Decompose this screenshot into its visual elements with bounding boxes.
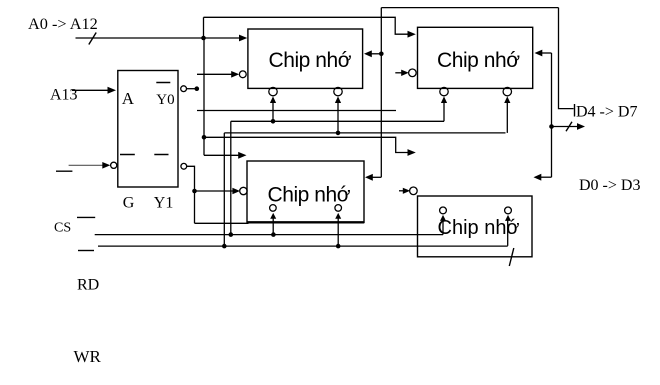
arrowhead chip3 RD bbox=[270, 213, 276, 219]
bubble chip4 RD bbox=[440, 207, 447, 214]
wire chip2 CS bbox=[395, 72, 404, 74]
wire chip3 RD riser bbox=[272, 217, 274, 235]
bubble chip3 RD bbox=[270, 205, 277, 212]
wire Y1 elbow bbox=[187, 166, 195, 223]
wire WR distribution riser bbox=[223, 133, 225, 246]
wire chip3 address bbox=[204, 154, 239, 156]
wire top address line to chip2 bbox=[204, 17, 408, 34]
svg-text:Y1: Y1 bbox=[154, 195, 174, 212]
junction node on A bus bbox=[201, 36, 206, 41]
svg-text:Chip nhớ: Chip nhớ bbox=[437, 49, 520, 72]
wire chip4 select run bbox=[204, 137, 408, 152]
wire address line 2 bbox=[197, 110, 396, 112]
arrowhead D0-D3 bbox=[577, 123, 585, 130]
node D-bus D0-D3 bbox=[549, 124, 554, 129]
node rail RD riser1 bbox=[229, 232, 234, 237]
svg-text:G: G bbox=[123, 195, 135, 212]
wire chip4 select dangling arrow head bubble bbox=[399, 190, 406, 192]
wire chip1 WR arrow bbox=[337, 100, 339, 133]
wire RD distribution horizontal bbox=[231, 120, 444, 122]
bubble chip1 RD bbox=[269, 87, 277, 95]
bubble chip4 CS bbox=[410, 187, 418, 195]
node WR to chip1 bbox=[336, 131, 341, 136]
chip U3 memory box 2 bbox=[418, 27, 533, 88]
arrowhead into chip2 address bbox=[408, 31, 416, 38]
arrowhead A13 into decoder pin A bbox=[108, 87, 117, 94]
node D-bus chip1 bbox=[379, 52, 384, 57]
bubble chip4 WR bbox=[505, 207, 512, 214]
wire chip3 WR riser bbox=[337, 217, 339, 246]
node end of Y0 stub bbox=[195, 86, 200, 91]
arrowhead toward chip4 data bbox=[534, 174, 542, 181]
bubble on decoder G input bbox=[111, 162, 117, 168]
wire Y1 bottom run to chip3 corner bbox=[195, 222, 249, 224]
svg-text:D0 -> D3: D0 -> D3 bbox=[579, 177, 640, 194]
wire G enable input bbox=[69, 164, 103, 166]
arrowhead chip3 WR bbox=[335, 213, 341, 219]
overbar CS bbox=[77, 216, 95, 218]
arrowhead G input bbox=[102, 162, 110, 169]
wire arrow toward chip4 data bbox=[540, 176, 552, 178]
wire chip2 RD arrow bbox=[443, 100, 445, 121]
node rail WR chip3 bbox=[336, 244, 341, 249]
tick at D4-D7 bbox=[574, 104, 576, 117]
svg-text:A13: A13 bbox=[50, 87, 78, 104]
arrowhead into chip2 data bbox=[535, 50, 543, 57]
node rail WR riser bbox=[222, 244, 227, 249]
wire arrow into chip1 data bbox=[370, 53, 381, 55]
wire chip4 WR riser bbox=[507, 220, 509, 246]
wire chip1 RD arrow bbox=[272, 100, 274, 121]
svg-text:Y0: Y0 bbox=[156, 92, 174, 108]
overbar stub below WR rail start bbox=[78, 250, 94, 252]
bubble chip3 WR bbox=[335, 205, 342, 212]
rail RD horizontal bbox=[95, 234, 443, 236]
bus slash on D0-D3 arrow bbox=[566, 122, 572, 132]
overbar of Y0 bbox=[156, 82, 170, 84]
wire arrow into chip3 data bbox=[371, 176, 381, 178]
wire RD distribution riser bbox=[230, 121, 232, 234]
decoder G overbar stub inside bbox=[120, 154, 135, 156]
wire D0-D3 arrow right bbox=[552, 126, 579, 128]
decoder U1 box bbox=[118, 71, 178, 188]
arrowhead into chip1 address bbox=[239, 35, 247, 42]
bus slash chip4 data bbox=[509, 248, 514, 266]
wire D-bus high vertical x=381 bbox=[380, 8, 382, 178]
bubble Y1 output bbox=[181, 163, 187, 169]
wire chip2 WR arrow bbox=[506, 100, 508, 133]
bubble chip1 WR bbox=[334, 87, 342, 95]
wire Y0 stub bbox=[187, 88, 197, 90]
node rail RD chip3 bbox=[271, 232, 276, 237]
svg-text:CS: CS bbox=[54, 221, 71, 236]
svg-text:RD: RD bbox=[77, 277, 99, 294]
arrowhead chip4 CS bbox=[403, 188, 410, 194]
arrowhead into chip1 CS bubble bbox=[231, 71, 239, 78]
wire vertical decoder-side bus x=204 bbox=[203, 38, 205, 155]
arrowhead chip4 WR bbox=[505, 215, 511, 221]
wire D-bus right vertical to D4-D7 bbox=[559, 8, 574, 109]
rail WR horizontal bbox=[98, 245, 508, 247]
arrowhead chip2 CS bbox=[401, 70, 409, 76]
wire A0->A12 bus horizontal bbox=[76, 37, 244, 39]
node RD to chip1 bbox=[271, 119, 276, 124]
wire chip4 RD riser bbox=[442, 220, 444, 235]
bubble chip3 CS bbox=[240, 187, 247, 194]
bubble chip2 RD bbox=[440, 87, 448, 95]
svg-text:Chip nhớ: Chip nhớ bbox=[268, 184, 351, 207]
wire vertical address bus riser bbox=[203, 17, 205, 38]
bubble chip2 WR bbox=[503, 87, 511, 95]
bubble Y0 output bbox=[181, 86, 187, 92]
wire A13 into decoder bbox=[72, 89, 108, 91]
chip U4 memory box 3 bbox=[247, 161, 364, 223]
arrowhead chip4 RD bbox=[440, 215, 446, 221]
wire WR distribution horizontal bbox=[224, 132, 505, 134]
arrowhead chip4 select dangling bbox=[408, 149, 416, 156]
wire D-bus low vertical x=551.5 bbox=[551, 53, 553, 177]
wire Y0 to chip1 CS bbox=[197, 73, 232, 75]
svg-text:Chip nhớ: Chip nhớ bbox=[269, 49, 352, 72]
node Y1 branch bbox=[192, 189, 197, 194]
wire arrow into chip2 data bbox=[541, 52, 552, 54]
arrowhead into chip3 data bbox=[365, 174, 373, 181]
wire Y1 to chip3 CS bbox=[195, 190, 237, 192]
arrowhead into chip3 address bbox=[238, 152, 246, 159]
decoder Y1 overbar stub inside bbox=[154, 154, 168, 156]
bubble chip2 CS bbox=[409, 69, 417, 77]
chip U5 memory box 4 bbox=[418, 196, 533, 257]
chip U2 memory box 1 bbox=[248, 29, 363, 88]
bubble chip1 CS bbox=[239, 71, 246, 78]
chip3 bottom thick edge bbox=[247, 221, 364, 223]
svg-text:D4 -> D7: D4 -> D7 bbox=[576, 104, 637, 121]
svg-text:A0 -> A12: A0 -> A12 bbox=[28, 14, 98, 33]
overbar stub left of G wire bbox=[56, 170, 72, 172]
arrowhead into chip1 data bbox=[364, 50, 372, 57]
arrowhead chip3 CS bbox=[232, 188, 240, 194]
node on vertical at chip4-select branch bbox=[202, 135, 207, 140]
bus slash on A0->A12 bbox=[89, 33, 96, 45]
svg-text:A: A bbox=[122, 89, 135, 108]
svg-text:WR: WR bbox=[74, 347, 102, 366]
wire D-bus top horizontal bbox=[381, 7, 558, 9]
